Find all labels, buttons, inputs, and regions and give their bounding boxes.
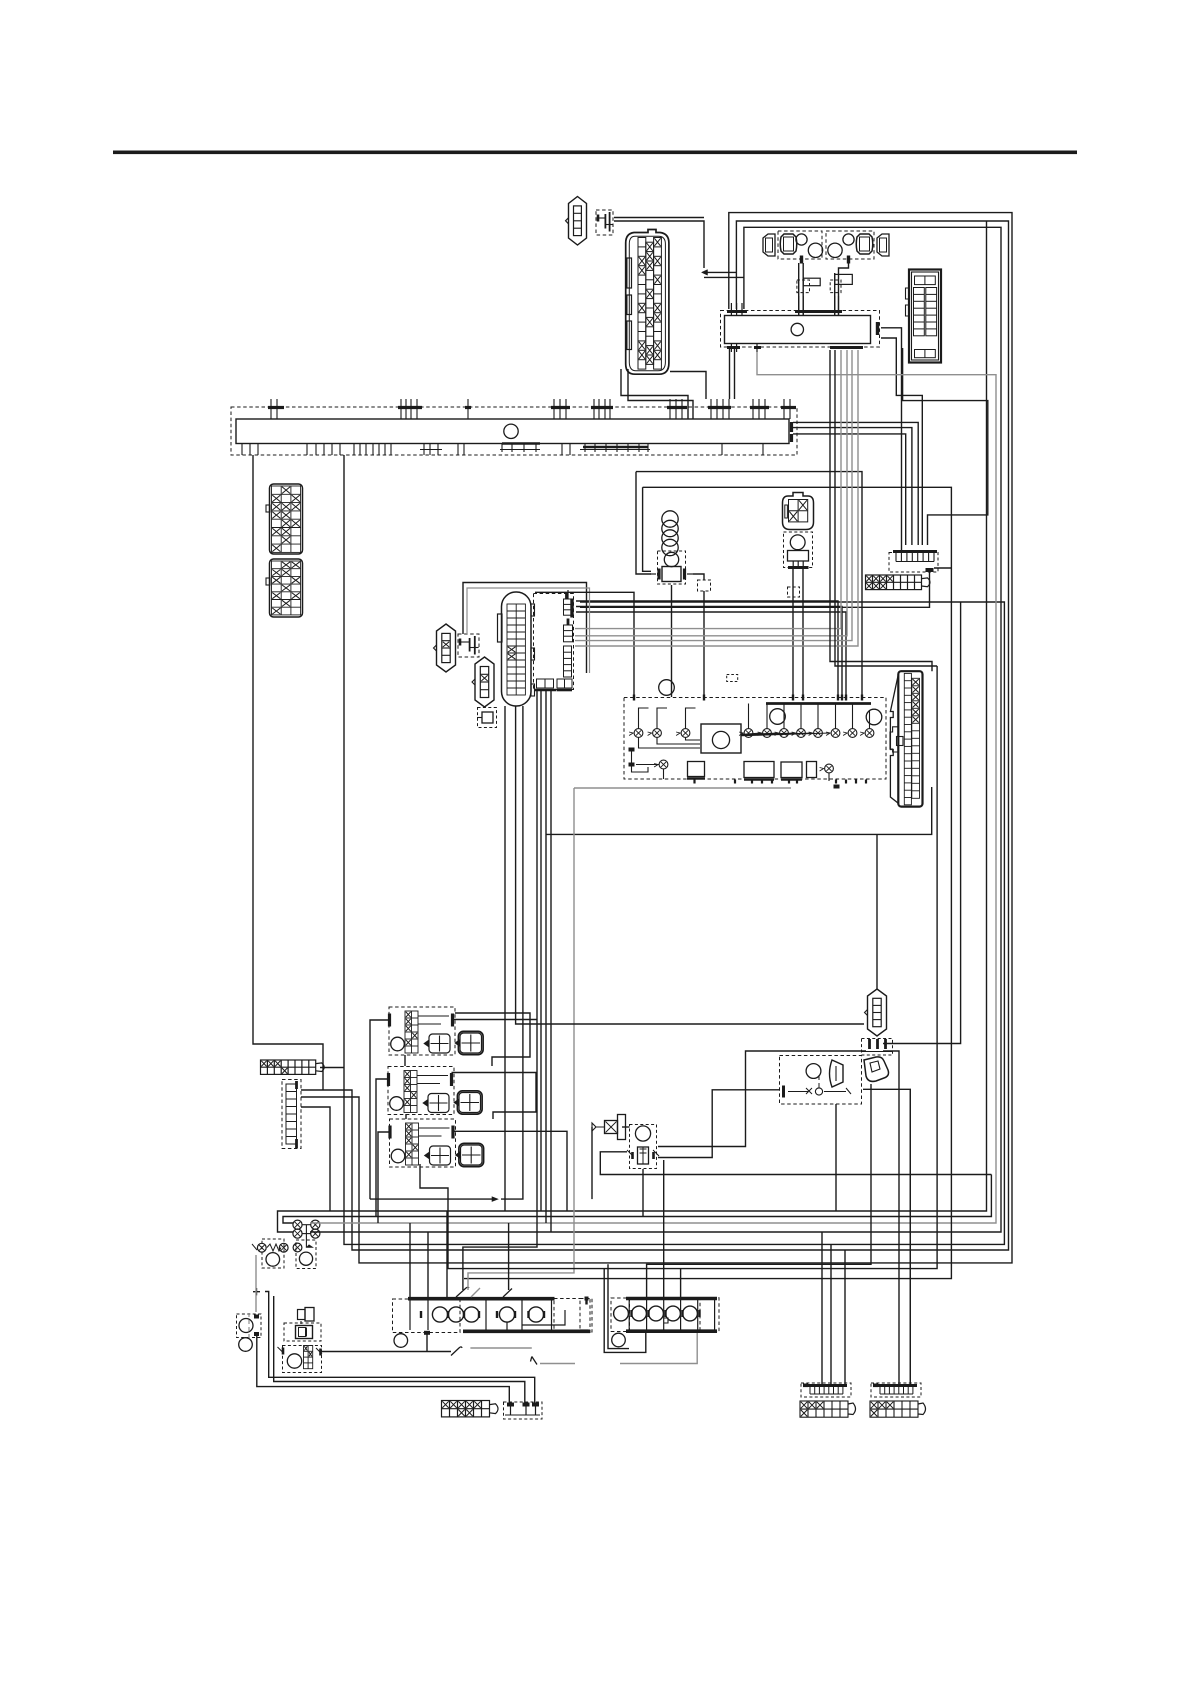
- wire: [575, 350, 852, 641]
- wire: [670, 372, 706, 400]
- relay unit 2 (dashed): [388, 1067, 454, 1115]
- wire: [620, 1333, 697, 1364]
- wire: [839, 261, 849, 315]
- wire: [881, 338, 922, 545]
- wire: [575, 350, 841, 629]
- wire: [516, 706, 864, 1024]
- sensor (dashed) with circle: [627, 1125, 659, 1169]
- front position lamp: [239, 1338, 253, 1352]
- wire: [680, 1269, 682, 1297]
- relay 2 coil circle: [390, 1097, 404, 1111]
- connector (coil 2): [856, 234, 873, 254]
- wire: [540, 1363, 575, 1365]
- wire: [830, 350, 932, 671]
- wire: [455, 1013, 530, 1066]
- spark plug 1: [796, 234, 807, 245]
- relay 1 coil circle: [391, 1037, 405, 1051]
- ECU bottom pin ticks: [695, 780, 867, 789]
- connector (relay 1 b): [455, 1031, 483, 1054]
- wire: [834, 273, 836, 315]
- switch right lamp: [612, 1333, 626, 1347]
- wire: [636, 472, 862, 697]
- ECU top entry ticks: [634, 695, 862, 701]
- wire: [453, 1131, 567, 1211]
- dashed box on wire 2: [788, 587, 800, 597]
- fuse (main, hatched): [261, 1060, 325, 1074]
- relay 3 coil circle: [391, 1149, 405, 1163]
- wire: [628, 369, 693, 419]
- spark plug 3: [828, 243, 842, 257]
- wire: [278, 221, 987, 1232]
- wire: [468, 788, 574, 1290]
- ECU pin circles: [629, 729, 643, 738]
- wire: [844, 1250, 846, 1384]
- main switch / junction bar (dashed outline): [231, 407, 797, 455]
- wire: [452, 1073, 537, 1120]
- wire: [274, 1296, 525, 1404]
- dashed box on coil wire 2: [830, 280, 841, 293]
- fuse (ignition): [458, 634, 479, 657]
- wire: [881, 328, 902, 552]
- wire: [376, 1079, 387, 1217]
- contact slash 4: [531, 1357, 538, 1365]
- wire: [370, 1198, 492, 1200]
- junction bar top pins: [268, 399, 796, 419]
- connector (small square, below): [477, 708, 497, 728]
- ECU lower components: [632, 748, 834, 782]
- wire: [576, 601, 838, 697]
- connector (relay 2 b): [454, 1091, 482, 1114]
- diode block: [592, 1115, 626, 1140]
- wire: [405, 1114, 407, 1119]
- wire: [704, 271, 736, 273]
- sensor stack (4 circles): [662, 511, 678, 556]
- contact slash: [456, 1287, 469, 1297]
- wire: [793, 428, 912, 545]
- wire: [863, 1089, 910, 1384]
- ignition coil 1 group (dashed): [778, 231, 822, 259]
- wire: [604, 1269, 646, 1353]
- wire: [546, 787, 932, 834]
- wire: [614, 221, 704, 268]
- wire: [310, 227, 1001, 1232]
- spark plug 4: [843, 234, 854, 245]
- handlebar switch left (dashed): [393, 1299, 591, 1333]
- wire: [550, 690, 552, 1232]
- relay unit 1 (dashed): [389, 1007, 455, 1055]
- wire: [663, 1160, 665, 1297]
- sensor body with side pins: [650, 567, 693, 582]
- tail/brake connector B (hatched): [870, 1401, 926, 1417]
- terminal row with resistor: [252, 1243, 288, 1252]
- tail/brake connector B (dashed): [871, 1383, 921, 1397]
- wire: [253, 455, 323, 1090]
- wire: [793, 434, 906, 545]
- wire: [643, 487, 651, 571]
- wire: [591, 1127, 593, 1199]
- relay 2 pins: [389, 1073, 452, 1086]
- connector (oil level switch): [566, 197, 587, 246]
- contact slash 5: [503, 1289, 512, 1298]
- tail/brake connector A (hatched): [800, 1401, 856, 1417]
- wire: [508, 1223, 510, 1290]
- handlebar switch right bars: [626, 1299, 717, 1332]
- wire: [830, 1244, 832, 1384]
- wire: [658, 1090, 780, 1158]
- junction bar right pins: [790, 422, 793, 442]
- wire: [642, 1169, 644, 1217]
- wire: [378, 1132, 389, 1223]
- wire: [575, 350, 858, 646]
- wire arrow: [492, 1197, 498, 1202]
- wire: [798, 263, 800, 315]
- wire: [463, 583, 587, 674]
- fuse (main): [596, 210, 613, 235]
- ignition switch (dashed) upper: [284, 1323, 321, 1341]
- battery tick: [253, 1288, 260, 1295]
- handlebar switch right contacts: [614, 1300, 715, 1330]
- wire: [426, 1333, 428, 1352]
- connector block (left upper): [266, 484, 303, 554]
- pin tick below coil 1: [800, 256, 803, 264]
- ECU thick bus line: [766, 702, 871, 705]
- switch left lamp: [394, 1334, 408, 1348]
- wire: [409, 1223, 411, 1297]
- ignitor top pins: [727, 296, 842, 316]
- ECU coupler (tall connector): [890, 671, 923, 806]
- tail/brake connector A (dashed): [801, 1383, 851, 1397]
- sensor (dashed) below oval: [784, 532, 813, 568]
- fuse pins (dashed): [504, 1402, 543, 1419]
- ignitor bottom pins: [727, 344, 863, 353]
- wire: [545, 690, 547, 1223]
- relay 3 ladder: [406, 1123, 419, 1165]
- handlebar switch right (dashed): [611, 1298, 719, 1332]
- ignition coil 2 group (dashed): [826, 231, 874, 259]
- connector (small, right of cluster): [877, 234, 889, 256]
- wire: [614, 217, 704, 219]
- horn (dashed box circle) 2: [293, 1240, 316, 1269]
- title rule: [113, 151, 1077, 155]
- wire: [344, 455, 1004, 1244]
- contact slash 3: [451, 1347, 462, 1356]
- ignition coil assembly (dashed): [534, 590, 574, 690]
- wire: [934, 567, 951, 569]
- wire: [703, 591, 705, 697]
- wire: [821, 1232, 823, 1384]
- wire: [370, 1020, 388, 1199]
- wire: [621, 369, 688, 419]
- wire: [883, 602, 961, 1044]
- wire: [580, 572, 930, 607]
- wire: [404, 1055, 406, 1066]
- ECU inner wiring: [639, 704, 870, 749]
- fusebox ladder (dashed): [282, 1080, 301, 1149]
- ECU upper circle left: [659, 680, 675, 696]
- horn (dashed box circle) 1: [262, 1239, 284, 1268]
- wire: [622, 1126, 630, 1128]
- wire: [574, 787, 791, 789]
- ECU center box: [701, 724, 741, 753]
- ECU upper circle mid: [770, 709, 786, 725]
- junction bar body: [236, 419, 789, 444]
- wire: [835, 350, 937, 666]
- wire: [636, 472, 651, 574]
- wire: [265, 1292, 535, 1405]
- wire: [576, 607, 842, 698]
- tab on coil wire 2: [835, 274, 853, 284]
- relay 1 pins: [390, 1014, 453, 1027]
- ECU upper circle right: [866, 709, 882, 725]
- spark plug 2: [808, 243, 822, 257]
- sensor dashed box: [658, 551, 686, 584]
- meter assembly connector: [906, 270, 942, 363]
- wire: [470, 1347, 531, 1349]
- wire: [453, 1019, 538, 1021]
- wire: [647, 1084, 871, 1297]
- wire: [464, 487, 951, 1278]
- wire: [576, 612, 846, 697]
- connector (small, left of cluster): [763, 234, 775, 256]
- connector (throttle body, oval): [783, 493, 814, 530]
- comb connector (right): [893, 552, 937, 562]
- wire: [793, 422, 918, 545]
- wire: [802, 263, 804, 315]
- wire: [658, 1051, 866, 1147]
- wire (dashed grey): [248, 1312, 250, 1338]
- ignition switch top component: [298, 1308, 315, 1325]
- wire: [608, 1264, 629, 1348]
- contact slash grey: [471, 1288, 480, 1297]
- wire: [301, 1107, 330, 1211]
- wire: [420, 666, 937, 1269]
- wire: [301, 213, 1012, 1263]
- wire: [693, 574, 704, 580]
- connector (relay 2 a): [423, 1094, 449, 1113]
- wire: [835, 1104, 837, 1211]
- wire: [792, 568, 794, 698]
- junction bar bottom pins: [242, 444, 763, 456]
- wire junction arrow: [702, 270, 708, 276]
- connector (main harness coupler): [626, 230, 669, 375]
- wire: [501, 706, 523, 1199]
- wire: [734, 348, 736, 399]
- connector (triangle): [864, 1057, 889, 1082]
- ignitor unit (dashed outline): [721, 311, 880, 348]
- front turn signal (dashed): [237, 1314, 262, 1338]
- terminal cluster (4 pins): [293, 1220, 320, 1247]
- wire: [504, 706, 506, 1211]
- ECU (dashed outline): [624, 698, 886, 780]
- wire: [463, 690, 537, 1290]
- ignitor unit: [725, 316, 871, 344]
- wire: [876, 834, 878, 989]
- wire: [427, 1232, 429, 1297]
- tab on coil wire 1: [803, 278, 820, 286]
- wire: [671, 585, 673, 697]
- dashed box on wire: [698, 580, 711, 591]
- switch right stub (left unit): [580, 1297, 592, 1333]
- relay 1 ladder: [405, 1011, 418, 1053]
- pin tick below coil 2: [847, 256, 850, 264]
- connector (stadium, sub-harness): [498, 592, 535, 706]
- wire: [255, 1255, 257, 1312]
- switch left below dot: [424, 1331, 430, 1335]
- handlebar switch left contacts: [410, 1300, 565, 1331]
- connector (coil 1): [780, 234, 797, 254]
- dashed box on wire 3: [727, 675, 738, 682]
- connector (sensor 2): [472, 657, 494, 707]
- wire: [909, 1089, 911, 1384]
- connector (hatched, right): [866, 575, 931, 590]
- wire: [310, 352, 996, 1223]
- wire (grey): [467, 588, 590, 673]
- coil pin bar: [570, 599, 573, 618]
- handlebar switch left bars: [408, 1299, 590, 1332]
- relay unit 3 (dashed): [390, 1119, 456, 1167]
- connector block (left lower): [266, 559, 303, 617]
- fuse (signal, hatched): [442, 1401, 499, 1417]
- ignition switch (dashed) lower: [278, 1346, 323, 1373]
- wire: [575, 350, 847, 636]
- dashed box on coil wire 1: [797, 280, 810, 293]
- connector (flasher): [865, 989, 887, 1036]
- wire: [320, 1067, 344, 1069]
- wire: [729, 348, 731, 399]
- wire: [903, 348, 988, 545]
- wire: [883, 1051, 899, 1384]
- wire: [802, 568, 804, 698]
- wire: [322, 1351, 451, 1353]
- connector (relay 1 a): [424, 1034, 450, 1053]
- relay assembly (dashed): [780, 1056, 862, 1105]
- ignitor right pin: [876, 322, 879, 335]
- wire: [257, 1336, 510, 1404]
- flasher pins (dashed): [862, 1039, 893, 1056]
- wire: [600, 1152, 991, 1175]
- comb connector dashed box: [889, 553, 938, 573]
- wire: [540, 690, 542, 1211]
- connector (relay 3 a): [425, 1146, 451, 1165]
- wire: [301, 221, 1009, 1250]
- wire: [535, 592, 634, 697]
- connector (sensor 1): [434, 624, 456, 672]
- wire: [704, 276, 744, 278]
- relay 3 pins: [390, 1126, 453, 1139]
- relay 2 ladder: [404, 1071, 417, 1113]
- wire: [446, 1211, 448, 1297]
- connector (relay 3 b): [456, 1143, 484, 1166]
- wire: [283, 1175, 991, 1224]
